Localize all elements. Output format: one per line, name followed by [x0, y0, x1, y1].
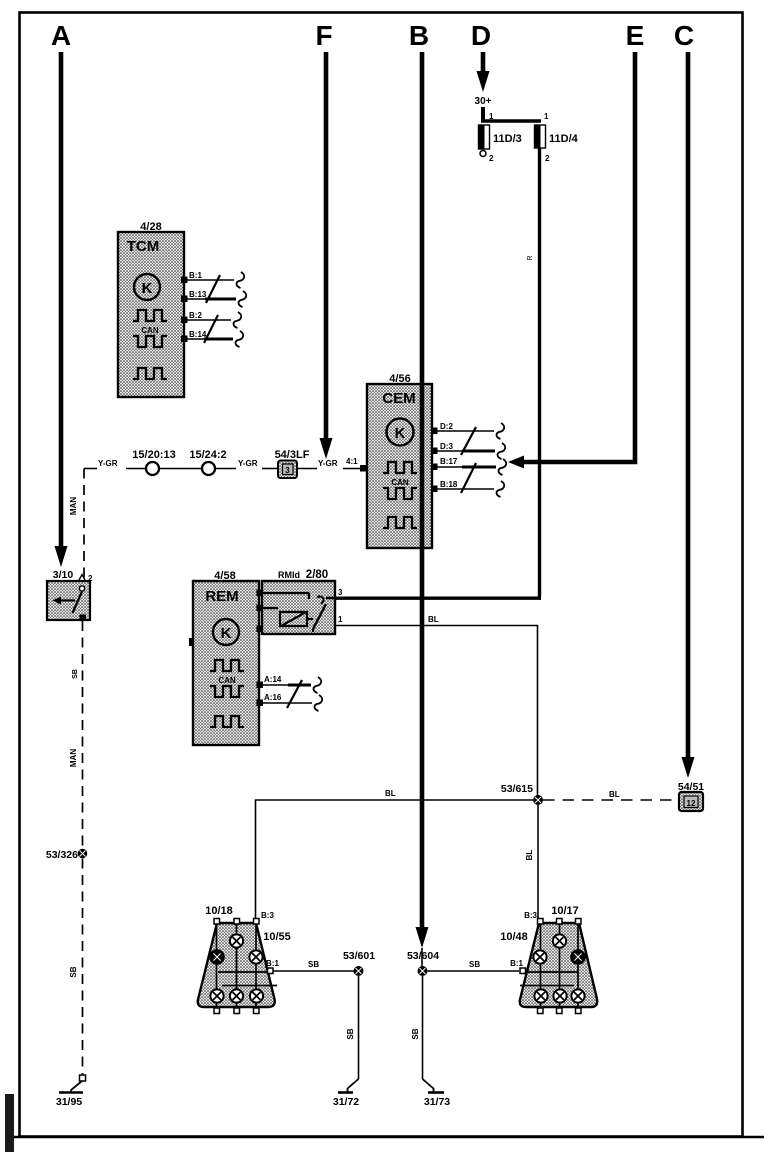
- wire from 11D/4 pin2 down to relay 2/80 pin 3: [335, 148, 541, 598]
- svg-text:12: 12: [687, 799, 696, 808]
- svg-text:15/24:2: 15/24:2: [189, 449, 226, 461]
- lamps left cluster: [210, 950, 224, 964]
- bottom pins right cluster: [538, 1008, 544, 1014]
- internal wires left cluster: [217, 923, 278, 1011]
- module REM 4/58: [193, 570, 259, 745]
- svg-text:3/10: 3/10: [53, 569, 74, 581]
- svg-text:54/3LF: 54/3LF: [275, 449, 310, 461]
- svg-text:10/17: 10/17: [551, 905, 579, 917]
- svg-text:1: 1: [338, 615, 343, 624]
- svg-text:31/95: 31/95: [56, 1096, 82, 1108]
- pin stub left REM: [189, 638, 194, 646]
- svg-text:BL: BL: [385, 789, 396, 798]
- svg-text:CAN: CAN: [391, 478, 409, 487]
- pin B:17 CEM: [431, 464, 438, 471]
- svg-text:B:1: B:1: [510, 959, 523, 968]
- svg-text:MAN: MAN: [69, 497, 78, 515]
- wire SB to 53/601: [273, 970, 354, 972]
- pin D:2 CEM: [431, 428, 438, 435]
- module CEM 4/56: [367, 373, 432, 548]
- pin B:1 left cluster: [268, 968, 274, 974]
- svg-text:1: 1: [489, 112, 494, 121]
- bottom pins left cluster: [214, 1008, 220, 1014]
- svg-text:K: K: [395, 425, 406, 442]
- svg-text:A:14: A:14: [264, 675, 282, 684]
- svg-text:K: K: [142, 280, 153, 297]
- wire BL from 2/80 pin1 to node 53/615: [335, 626, 538, 801]
- twisted pair wires CEM B:17/B:18: [437, 459, 506, 497]
- wire SB dashed from 53/326 to ground 31/95: [82, 859, 84, 1076]
- svg-text:TCM: TCM: [127, 238, 160, 255]
- svg-text:11D/4: 11D/4: [549, 133, 579, 145]
- pin B:1 TCM: [181, 277, 188, 284]
- wire SB from 53/601 to ground 31/72: [358, 976, 360, 1079]
- svg-text:SB: SB: [72, 669, 79, 679]
- wire MAN dashed from Y-GR corner down to 3/10: [83, 469, 85, 579]
- svg-text:B:3: B:3: [524, 911, 537, 920]
- svg-text:D:3: D:3: [440, 442, 453, 451]
- pin B:1 right cluster: [520, 968, 526, 974]
- pin B:14 TCM: [181, 336, 188, 343]
- pin 4:1 CEM: [360, 465, 367, 472]
- twisted pair wires REM A:14/A:16: [262, 677, 322, 711]
- svg-text:4:1: 4:1: [346, 457, 358, 466]
- lamps right cluster: [533, 950, 546, 963]
- switch 3/10: [47, 569, 93, 621]
- svg-text:53/326: 53/326: [46, 849, 78, 861]
- top pins left cluster: [214, 919, 220, 925]
- connector 11D/3: [479, 112, 522, 163]
- internal wires right cluster: [520, 923, 578, 1011]
- svg-text:2: 2: [545, 154, 550, 163]
- svg-text:Y-GR: Y-GR: [238, 459, 258, 468]
- relay RMld 2/80: [262, 569, 335, 634]
- ground 31/72: [333, 1079, 359, 1108]
- svg-text:B:1: B:1: [189, 271, 202, 280]
- svg-text:REM: REM: [205, 588, 238, 605]
- svg-text:2/80: 2/80: [306, 569, 328, 581]
- svg-text:15/20:13: 15/20:13: [132, 449, 175, 461]
- connector 11D/4: [535, 112, 579, 163]
- svg-text:Y-GR: Y-GR: [98, 459, 118, 468]
- wire SB from 53/604 to right cluster B:1: [428, 970, 520, 972]
- wire C (thick feed with arrow to 54/51): [682, 52, 695, 778]
- svg-text:B: B: [409, 20, 429, 51]
- svg-text:SB: SB: [346, 1028, 355, 1039]
- svg-text:MAN: MAN: [69, 749, 78, 767]
- svg-text:BL: BL: [428, 615, 439, 624]
- svg-text:B:3: B:3: [261, 911, 274, 920]
- module TCM 4/28: [118, 221, 184, 397]
- svg-text:SB: SB: [308, 960, 319, 969]
- wire E (thick feed with arrow to CEM B:17): [508, 52, 635, 469]
- twisted pair wires CEM D:2/D:3: [437, 423, 505, 459]
- node 53/326: [78, 849, 88, 859]
- svg-text:31/73: 31/73: [424, 1096, 450, 1108]
- svg-text:SB: SB: [469, 960, 480, 969]
- svg-text:D: D: [471, 20, 491, 51]
- wire F (thick feed with arrow to Y-GR wire): [320, 52, 333, 459]
- svg-text:2: 2: [489, 154, 494, 163]
- wire B (thick feed with arrow to 53/604): [416, 52, 429, 967]
- wire BL from 53/615 down to right cluster: [537, 805, 539, 919]
- svg-text:E: E: [626, 20, 645, 51]
- svg-text:SB: SB: [411, 1028, 420, 1039]
- svg-text:53/601: 53/601: [343, 950, 375, 962]
- node 53/601: [354, 966, 364, 976]
- svg-text:3: 3: [338, 588, 343, 597]
- svg-text:B:18: B:18: [440, 480, 458, 489]
- ground 31/95: [56, 1075, 86, 1108]
- pin B:2 TCM: [181, 317, 188, 324]
- svg-text:10/55: 10/55: [263, 931, 291, 943]
- pin squares between REM and 2/80: [257, 590, 264, 597]
- svg-text:A: A: [51, 20, 71, 51]
- twisted pair wires TCM B:1/B:13: [187, 272, 246, 307]
- svg-text:31/72: 31/72: [333, 1096, 359, 1108]
- svg-text:Y-GR: Y-GR: [318, 459, 338, 468]
- wire SB dashed from 3/10 pin1 to node 53/326: [82, 621, 84, 849]
- node 53/604: [418, 966, 428, 976]
- svg-text:1: 1: [544, 112, 549, 121]
- svg-text:CEM: CEM: [382, 390, 415, 407]
- svg-text:CAN: CAN: [218, 676, 236, 685]
- svg-text:A:16: A:16: [264, 693, 282, 702]
- svg-text:53/604: 53/604: [407, 950, 439, 962]
- wire SB from 53/604 to ground 31/73: [422, 976, 424, 1079]
- svg-text:53/615: 53/615: [501, 783, 533, 795]
- wire Y-GR run to CEM 4:1: [84, 468, 361, 470]
- node 30+ battery feed: [475, 96, 541, 121]
- svg-text:BL: BL: [609, 790, 620, 799]
- svg-text:11D/3: 11D/3: [493, 133, 522, 145]
- column letters: [51, 20, 694, 51]
- top pins right cluster: [538, 919, 544, 925]
- svg-text:R: R: [527, 255, 534, 260]
- relay internal contact and coil: [259, 593, 335, 632]
- ground 31/73: [423, 1079, 451, 1108]
- pin B:13 TCM: [181, 296, 188, 303]
- svg-text:30+: 30+: [475, 96, 492, 107]
- lamp cluster 10/17 10/48 right: [500, 905, 597, 1007]
- pin B:18 CEM: [431, 486, 438, 493]
- pin A:16 REM: [257, 700, 264, 707]
- svg-text:CAN: CAN: [141, 326, 159, 335]
- svg-text:RMld: RMld: [278, 570, 300, 580]
- wire D (thick feed with arrow to 30+): [477, 52, 490, 92]
- node 53/615: [533, 795, 543, 805]
- svg-text:BL: BL: [525, 850, 534, 861]
- wire BL dashed from 53/615 to 54/51: [543, 799, 679, 801]
- pin A:14 REM: [257, 682, 264, 689]
- svg-text:B:17: B:17: [440, 457, 458, 466]
- svg-text:10/18: 10/18: [205, 905, 233, 917]
- svg-text:C: C: [674, 20, 694, 51]
- svg-text:10/48: 10/48: [500, 931, 528, 943]
- lamp cluster 10/18 10/55 left: [198, 905, 291, 1007]
- wire BL horizontal to left cluster: [256, 800, 534, 919]
- svg-text:B:1: B:1: [266, 959, 279, 968]
- svg-text:SB: SB: [69, 966, 78, 977]
- pin D:3 CEM: [431, 448, 438, 455]
- svg-text:K: K: [221, 625, 232, 642]
- connector 54/51: [678, 781, 704, 811]
- scan shadow bottom-left: [5, 1094, 14, 1152]
- svg-text:F: F: [315, 20, 332, 51]
- svg-text:B:13: B:13: [189, 290, 207, 299]
- twisted pair wires TCM B:2/B:14: [187, 312, 243, 347]
- svg-text:3: 3: [285, 466, 290, 475]
- svg-text:B:2: B:2: [189, 311, 202, 320]
- wire A (thick feed with arrow to 3/10): [55, 52, 68, 567]
- svg-text:D:2: D:2: [440, 422, 453, 431]
